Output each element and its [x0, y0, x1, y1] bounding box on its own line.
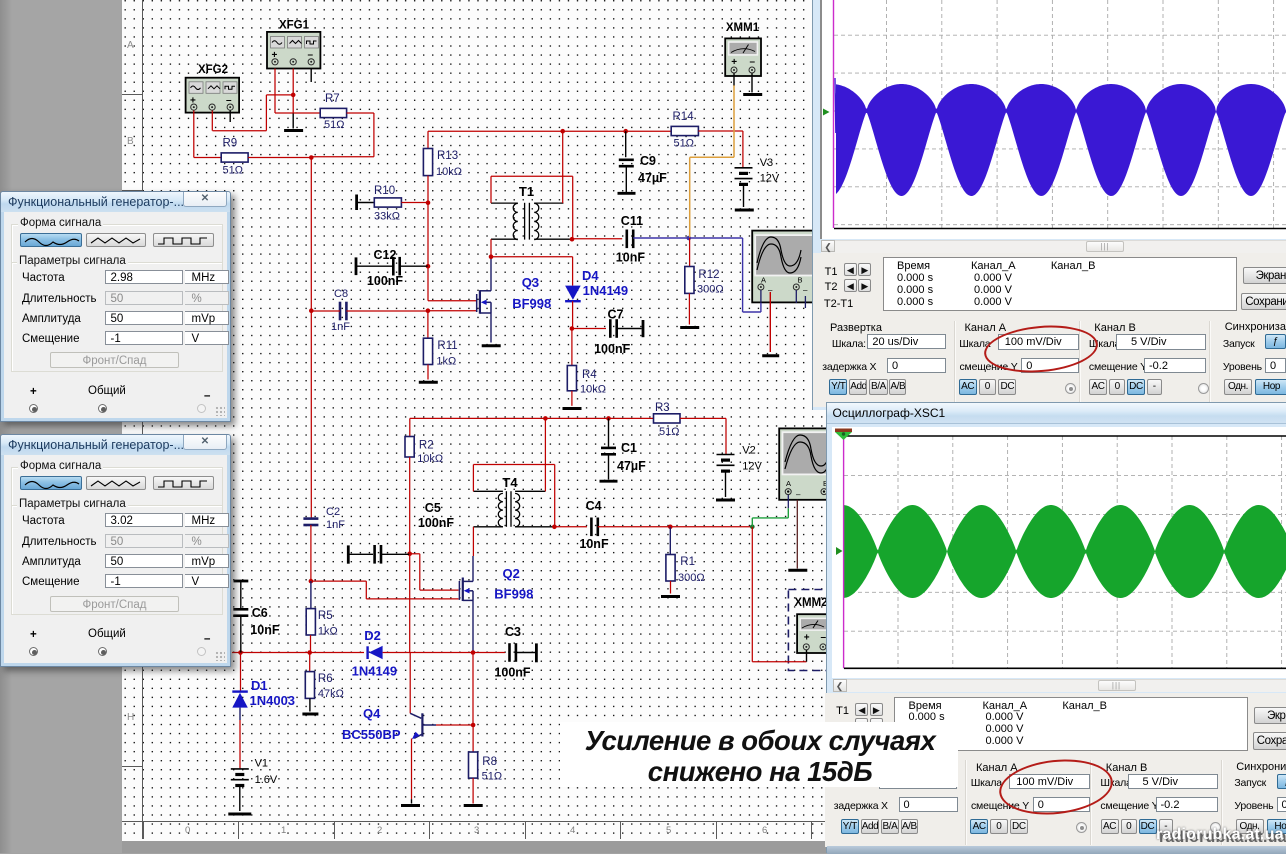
wire to Q3 gate1 — [428, 310, 476, 312]
svg-text:D4: D4 — [582, 268, 599, 283]
resistor R7 — [320, 108, 346, 117]
svg-text:R7: R7 — [325, 93, 340, 105]
svg-text:300Ω: 300Ω — [697, 284, 724, 296]
wire R10 left lead — [357, 202, 375, 204]
wire R13 bottom — [427, 176, 429, 203]
terminal bar right of C3 — [535, 643, 538, 662]
wire C5 left lead — [348, 553, 373, 555]
svg-text:33kΩ: 33kΩ — [374, 211, 400, 223]
wire C11 right (purple) to R12 node — [633, 237, 689, 239]
wire Q4 emitter down to ground — [411, 739, 413, 800]
resistor R6 — [309, 653, 311, 672]
svg-text:10kΩ: 10kΩ — [580, 384, 606, 396]
junction R10/R13 — [426, 200, 431, 205]
wire D4 cathode down to C7 junction — [572, 301, 574, 328]
junction C2/R5/Q2-G1 — [309, 579, 314, 584]
scope XSC1 A- pin to ground — [796, 500, 798, 569]
svg-text:V1: V1 — [255, 758, 268, 770]
purple wire to scope XSC2 A+ — [689, 237, 743, 239]
wire XFG2 + down to R9 — [193, 111, 195, 158]
svg-text:10kΩ: 10kΩ — [417, 453, 443, 465]
svg-text:100nF: 100nF — [418, 516, 454, 530]
instrument oscilloscope icon XSC2 — [752, 231, 814, 303]
terminal bar above C6 — [234, 580, 249, 583]
diode D2 1N4149 — [366, 646, 368, 659]
svg-text:–: – — [796, 490, 801, 499]
wire R13 node down to C12 — [427, 203, 429, 267]
wire T4 left-bottom down to Q2 drain — [472, 527, 474, 556]
wire Q3 drain junction to D4 column — [491, 256, 573, 258]
instrument XFG2 (function generator) — [186, 64, 240, 113]
wire Q3 drain up to T1 — [490, 257, 492, 291]
svg-text:10nF: 10nF — [616, 251, 646, 265]
wire C6 bottom to rail — [240, 616, 242, 653]
wire Q2 source down to bus — [472, 600, 474, 652]
wire T4 junction to C4 — [554, 526, 587, 528]
ground under R6 — [302, 713, 318, 716]
svg-text:XFG1: XFG1 — [279, 20, 310, 32]
wire C2 bottom to R5 junction — [310, 525, 312, 581]
battery V2 — [717, 454, 735, 456]
svg-text:R14: R14 — [673, 111, 695, 123]
svg-text:51Ω: 51Ω — [659, 426, 679, 438]
svg-text:51Ω: 51Ω — [324, 119, 344, 131]
svg-text:C4: C4 — [586, 499, 602, 513]
svg-text:–: – — [750, 56, 756, 67]
wire rail down to D1 — [240, 653, 242, 692]
wire XFG1 common to XFG2 common — [266, 94, 293, 96]
junction rail/R5/R6 — [307, 650, 312, 655]
long wire column R9-net down to C2 — [310, 158, 312, 518]
junction bus/T4 column — [543, 416, 548, 421]
ground under V1 — [228, 813, 251, 816]
resistor R14 — [671, 126, 698, 135]
svg-text:10nF: 10nF — [579, 537, 609, 551]
resistor R3 — [654, 414, 681, 423]
resistor R12 — [685, 267, 694, 294]
svg-text:1.6V: 1.6V — [255, 774, 278, 786]
terminal bar right of C7 — [642, 320, 645, 337]
wire R10 right — [401, 202, 428, 204]
wire R4 to ground — [571, 391, 573, 406]
ground under Q4 emitter — [401, 804, 420, 807]
transformer T1 — [491, 203, 572, 240]
transistor Q2 BF998 (dual-gate MOSFET) — [459, 578, 473, 602]
svg-text:C11: C11 — [621, 214, 643, 228]
svg-text:12V: 12V — [742, 461, 762, 473]
ground under R4 — [563, 407, 582, 410]
junction C8 left on long column — [309, 308, 314, 313]
wire rail to C3 — [473, 652, 505, 654]
svg-text:47kΩ: 47kΩ — [318, 688, 344, 700]
wire C2/R5 junction staircase to Q2 gate1 — [311, 580, 366, 582]
junction bus/T1 right top — [560, 129, 565, 134]
resistor R4 — [567, 366, 576, 391]
wire XFG1 + down to R7 row — [274, 69, 276, 114]
instrument oscilloscope icon XSC1 — [779, 428, 830, 499]
wire R12 to ground — [688, 293, 690, 324]
diode D1 1N4003 — [232, 690, 248, 692]
SCOPE2 — [826, 402, 1286, 853]
wire R2/C5 node down to Q4 base — [409, 554, 411, 653]
wire bus down to T1 right-top — [562, 131, 564, 203]
orange wire XMM1 + down — [733, 85, 735, 157]
junction C12 — [426, 264, 431, 269]
svg-text:A: A — [786, 479, 791, 488]
capacitor C6 — [233, 608, 248, 611]
svg-text:C7: C7 — [608, 308, 624, 322]
terminal bar left of R10 — [355, 195, 358, 211]
svg-text:47µF: 47µF — [617, 459, 646, 473]
SCOPE1 — [812, 0, 1286, 410]
ground under Q3 source — [482, 344, 501, 347]
svg-text:XMM1: XMM1 — [726, 22, 760, 34]
capacitor C11 — [625, 230, 628, 249]
svg-text:C12: C12 — [374, 248, 397, 262]
battery V1 — [231, 768, 249, 770]
capacitor C9 — [625, 131, 627, 157]
svg-text:–: – — [803, 286, 808, 295]
svg-text:B: B — [798, 276, 803, 285]
wire bottom signal rail — [232, 652, 364, 654]
svg-text:R5: R5 — [318, 610, 333, 622]
junction C8 right / gate1 / R11 — [426, 308, 431, 313]
ground under R12 — [680, 326, 699, 329]
svg-text:R13: R13 — [437, 150, 458, 162]
left desktop gray area — [0, 0, 122, 853]
svg-text:R8: R8 — [482, 756, 497, 768]
svg-text:10nF: 10nF — [250, 623, 280, 637]
scope XSC2 pin stubs — [795, 290, 797, 303]
wire R12 top lead — [689, 238, 691, 267]
ground under V2 — [716, 499, 735, 502]
resistor R1 — [666, 555, 675, 582]
svg-text:XFG2: XFG2 — [198, 64, 228, 76]
ground under XMM1 — [743, 93, 762, 96]
wire XMM1 minus to ground — [751, 73, 753, 92]
wire bus down to T4 right-top — [544, 418, 546, 491]
resistor R5 — [310, 581, 312, 609]
wire T1 left-bottom down to Q3 drain junction — [490, 239, 492, 257]
resistor R11 — [427, 311, 429, 339]
wire C6 top lead — [240, 581, 242, 609]
svg-text:Q3: Q3 — [522, 275, 539, 290]
junction R9 net / C8-C2 column — [309, 155, 314, 160]
svg-text:BC550BP: BC550BP — [342, 727, 401, 742]
capacitor C8 — [339, 302, 342, 321]
svg-text:BF998: BF998 — [494, 587, 533, 602]
wire C12 left lead — [356, 265, 393, 267]
junction bus/C9 — [623, 129, 628, 134]
instrument XFG1 (function generator) — [267, 20, 320, 69]
wire R7 right to R9 row — [347, 112, 374, 114]
ground under R11 — [419, 381, 438, 384]
instrument XMM2 (multimeter, selected) — [794, 597, 830, 653]
capacitor C4 — [590, 518, 593, 537]
svg-text:R11: R11 — [437, 340, 457, 352]
diode D4 1N4149 — [565, 286, 581, 300]
svg-text:D2: D2 — [364, 628, 381, 643]
wire R9 right — [248, 157, 311, 159]
stub XFG1 minus — [310, 69, 312, 83]
capacitor C1 — [608, 418, 610, 446]
wire V1 to ground — [239, 786, 241, 812]
svg-text:C9: C9 — [640, 154, 656, 168]
capacitor C7 — [609, 319, 612, 338]
wire C4 bus to green junction — [670, 526, 752, 528]
wire C7 left lead — [572, 328, 606, 330]
junction T4 right-bottom / C4 bus — [552, 525, 557, 530]
svg-text:1N4149: 1N4149 — [352, 664, 398, 679]
svg-text:T1: T1 — [519, 184, 534, 199]
svg-text:T4: T4 — [502, 475, 518, 490]
capacitor C5 — [373, 545, 376, 564]
junction Q4 collector/R8 — [471, 723, 476, 728]
wire junction up to rail — [472, 653, 474, 726]
svg-text:1kΩ: 1kΩ — [436, 356, 456, 368]
stub XFG2 minus — [229, 111, 231, 123]
resistor R8 — [469, 752, 478, 778]
wire R7 left lead — [275, 112, 320, 114]
radiorubka watermark — [1155, 825, 1157, 827]
svg-text:100nF: 100nF — [494, 666, 530, 680]
green wire to scope XSC1 A+ — [751, 518, 753, 527]
capacitor C12 — [392, 257, 395, 276]
ground under scope A- — [762, 354, 779, 357]
svg-text:100nF: 100nF — [367, 274, 403, 288]
ground under V3 — [735, 209, 754, 212]
svg-text:R1: R1 — [680, 556, 695, 568]
wire Q4 collector to R8 junction — [436, 724, 473, 726]
svg-text:1kΩ: 1kΩ — [318, 626, 338, 638]
wire green node down to XMM2 — [751, 527, 753, 662]
svg-text:+: + — [731, 57, 737, 68]
svg-text:C5: C5 — [425, 501, 441, 515]
svg-text:+: + — [804, 633, 810, 644]
junction rail/Q2 source/R8 column — [471, 650, 476, 655]
svg-text:XMM2: XMM2 — [794, 597, 827, 609]
junction C4/R1 — [668, 525, 673, 530]
ground under R8 — [464, 804, 483, 807]
wire R1 top lead — [669, 527, 671, 555]
svg-text:V2: V2 — [742, 445, 755, 457]
svg-text:1N4149: 1N4149 — [583, 283, 629, 298]
svg-text:Q4: Q4 — [363, 706, 381, 721]
svg-text:R4: R4 — [582, 369, 597, 381]
selection dashed box around XMM2 — [788, 590, 848, 671]
resistor R2 — [405, 437, 414, 458]
wire R14 right to V3 — [698, 130, 743, 132]
svg-text:47µF: 47µF — [638, 171, 667, 185]
wire Q2 drain up to T4 — [472, 556, 474, 581]
svg-text:1N4003: 1N4003 — [250, 693, 296, 708]
capacitor C3 — [508, 643, 511, 662]
wire bus down to R13 — [427, 131, 429, 148]
svg-text:R6: R6 — [318, 673, 333, 685]
svg-text:C6: C6 — [252, 606, 268, 620]
junction green node — [750, 525, 755, 530]
svg-text:C2: C2 — [326, 506, 340, 518]
wire C5 node to Q2 gate2 — [410, 553, 420, 555]
resistor R13 — [423, 149, 432, 176]
svg-text:300Ω: 300Ω — [678, 572, 705, 584]
wire Q3 source to ground — [490, 313, 492, 343]
svg-text:100nF: 100nF — [594, 342, 630, 356]
svg-text:R3: R3 — [655, 402, 670, 414]
svg-text:V3: V3 — [760, 157, 773, 169]
wire XMM1 plus lead stub — [733, 73, 735, 86]
wire R8 to ground — [472, 778, 474, 803]
junction T1 right-bottom / C11 — [570, 237, 575, 242]
wire R5 bottom to rail — [310, 635, 312, 653]
svg-text:D1: D1 — [251, 678, 268, 693]
terminal bar left of C12 — [355, 257, 358, 275]
ground under XSC1 A- — [788, 569, 807, 572]
svg-text:C3: C3 — [505, 625, 521, 639]
svg-text:R9: R9 — [223, 138, 238, 150]
svg-text:12V: 12V — [760, 173, 780, 185]
svg-text:R2: R2 — [419, 440, 434, 452]
wire V2 supply bus — [410, 417, 654, 419]
svg-text:51Ω: 51Ω — [223, 165, 243, 177]
junction R2/C5 — [407, 552, 412, 557]
wire scope A- to ground — [769, 292, 771, 352]
svg-text:Q2: Q2 — [503, 566, 520, 581]
wire R8 top lead — [472, 725, 474, 752]
resistor R9 — [221, 153, 248, 162]
wire R2 bottom to C5 junction — [409, 457, 411, 554]
terminal bar under C1 — [600, 480, 618, 483]
junction bus/C1 — [606, 416, 611, 421]
svg-text:C1: C1 — [621, 441, 637, 455]
junction D4/C7/R4 — [570, 326, 575, 331]
wire R11 to ground — [427, 365, 429, 380]
capacitor C2 — [303, 517, 318, 520]
wire R1 to ground — [670, 581, 672, 594]
transformer T4 — [473, 491, 554, 527]
battery V3 — [735, 167, 753, 169]
svg-text:R12: R12 — [698, 269, 719, 281]
white box with annotation text — [560, 722, 958, 787]
junction C11/R12/orange/purple node — [687, 236, 692, 241]
wire R6 to ground — [309, 698, 311, 711]
junction T1 bottom-left / Q3 drain — [489, 254, 494, 259]
wire bus down to R2 — [409, 418, 411, 436]
wire top supply bus — [428, 130, 563, 132]
wire D1 anode down to V1 — [239, 708, 241, 720]
junction rail/C6/D1 — [238, 650, 243, 655]
wire C12 node down to Q3 gate2 — [427, 266, 429, 301]
terminal bar left of C5 — [347, 545, 350, 563]
svg-text:R10: R10 — [374, 185, 395, 197]
resistor R10 — [374, 198, 401, 207]
wire down to R4 — [571, 329, 573, 366]
wire D2 right to Q2 source junction — [383, 652, 473, 654]
wire T1/junction to C11 — [572, 238, 622, 240]
wire T4 left-top over to right-bottom — [472, 465, 474, 492]
wire T1 left-top over to right-bottom — [490, 176, 492, 203]
transistor Q4 BC550BP (NPN) — [410, 713, 436, 739]
svg-text:51Ω: 51Ω — [674, 138, 694, 150]
svg-text:1nF: 1nF — [331, 321, 350, 333]
junction XFG1 common node — [291, 93, 296, 98]
svg-text:51Ω: 51Ω — [482, 771, 502, 783]
wire V3 minus to ground — [743, 184, 745, 207]
ground under XFG1 common — [292, 114, 294, 129]
ground under R1 — [661, 595, 680, 598]
wire R3 right to V2 — [680, 417, 726, 419]
wire V2 to ground — [725, 471, 727, 497]
wire XFG1 common down — [292, 69, 294, 114]
svg-text:A: A — [761, 276, 766, 285]
svg-text:BF998: BF998 — [512, 296, 551, 311]
transistor Q3 BF998 (dual-gate MOSFET) — [477, 290, 491, 314]
svg-text:1nF: 1nF — [326, 519, 345, 531]
instrument XMM1 (multimeter) — [725, 22, 761, 76]
svg-text:10kΩ: 10kΩ — [436, 166, 462, 178]
svg-text:C8: C8 — [334, 288, 348, 300]
